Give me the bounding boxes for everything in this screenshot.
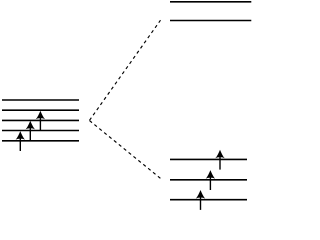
left degenerate level line 1 [2, 99, 79, 101]
electron arrow on lower right line 1 [215, 150, 224, 170]
lower right level line 2 [170, 179, 247, 181]
upper right level line 1 [170, 1, 251, 3]
lower right level line 1 [170, 158, 247, 160]
left degenerate level line 2 [2, 109, 79, 111]
lower right level line 3 [170, 199, 247, 201]
electron arrow on left line 3 [36, 111, 45, 131]
dashed correlation line to upper set [90, 20, 161, 120]
electron arrow on left line 4 [26, 121, 35, 141]
left degenerate level line 5 [2, 140, 79, 142]
electron arrow on left line 5 [16, 131, 25, 151]
electron arrow on lower right line 3 [196, 190, 205, 210]
upper right level line 2 [170, 20, 251, 22]
left degenerate level line 3 [2, 119, 79, 121]
left degenerate level line 4 [2, 130, 79, 132]
electron arrow on lower right line 2 [206, 170, 215, 190]
dashed correlation line to lower set [90, 121, 162, 179]
